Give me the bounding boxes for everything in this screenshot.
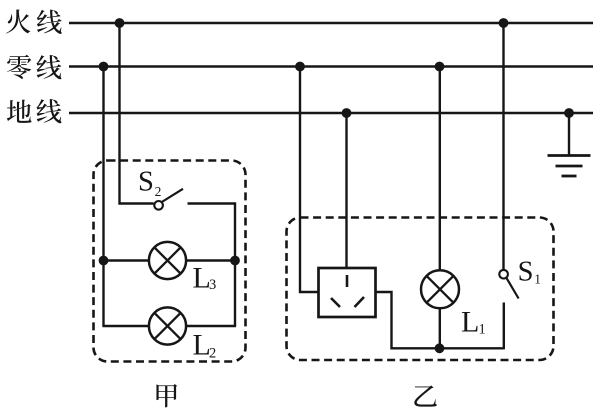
node: junction earth bus / socket-earth drop — [342, 108, 352, 118]
svg-text:1: 1 — [534, 272, 541, 287]
svg-text:2: 2 — [155, 184, 162, 199]
ground symbol — [548, 156, 591, 177]
enclosure: dashed box 乙 — [287, 218, 554, 361]
wire: S1 bottom lead to bottom bus — [503, 303, 505, 350]
wire: L2 left lead — [102, 325, 149, 327]
wire: lamp L1 bottom lead — [439, 308, 441, 348]
svg-text:3: 3 — [209, 277, 216, 293]
wire: neutral drop + left rail of box 甲 — [102, 67, 104, 327]
node: junction live bus / S1 drop — [499, 18, 509, 28]
wire: L2 right lead — [186, 325, 236, 327]
svg-text:S: S — [138, 166, 154, 197]
node: junction bottom bus / L1 bottom — [435, 343, 445, 353]
wire: socket right terminal to bottom bus — [376, 292, 504, 348]
wire: live drop to switch S1 — [502, 23, 504, 270]
node: junction live bus / S2 drop — [115, 18, 125, 28]
lamp L2 (circle with X) — [149, 307, 186, 344]
wire: neutral drop to lamp L1 top — [439, 67, 441, 272]
switch S1 (circle + blade) — [499, 270, 518, 299]
label: neutral wire "零线" — [7, 55, 61, 80]
wire: neutral drop to socket left terminal — [300, 67, 319, 293]
label 乙 — [414, 385, 437, 406]
wire: live bus (火线) — [69, 22, 593, 24]
wire: earth bus (地线) — [69, 112, 593, 114]
svg-text:2: 2 — [209, 346, 216, 362]
lamp L1 (circle with X) — [421, 270, 459, 308]
switch S2 (circle + blade) — [154, 189, 183, 210]
wire: earth drop to socket top (earth pin) — [345, 113, 347, 268]
node: junction earth bus / ground drop — [564, 108, 574, 118]
wire: live drop to switch S2 — [120, 23, 154, 204]
node: junction neutral bus / socket drop — [295, 62, 305, 72]
lamp L3 (circle with X) — [149, 242, 186, 279]
svg-text:S: S — [518, 256, 534, 287]
wire: S2 output to right rail of box 甲 — [188, 204, 236, 327]
wire: L3 right lead — [186, 259, 235, 261]
label 甲 — [156, 384, 177, 407]
wire: neutral bus (零线) — [69, 65, 593, 67]
socket: 3-pin outlet — [319, 268, 376, 317]
label: earth wire "地线" — [7, 99, 62, 123]
wire: L3 left lead — [104, 259, 150, 261]
node: junction L3-left on rail — [99, 256, 109, 266]
label: live wire "火线" — [6, 9, 62, 33]
wire: earth drop to ground symbol — [568, 113, 570, 156]
node: junction neutral bus / L1 drop — [435, 62, 445, 72]
node: junction neutral bus / box-甲 drop — [99, 62, 109, 72]
node: junction L3-right on rail — [230, 256, 240, 266]
enclosure: dashed box 甲 — [94, 161, 246, 362]
svg-text:1: 1 — [479, 322, 486, 338]
svg-text:L: L — [461, 306, 479, 339]
